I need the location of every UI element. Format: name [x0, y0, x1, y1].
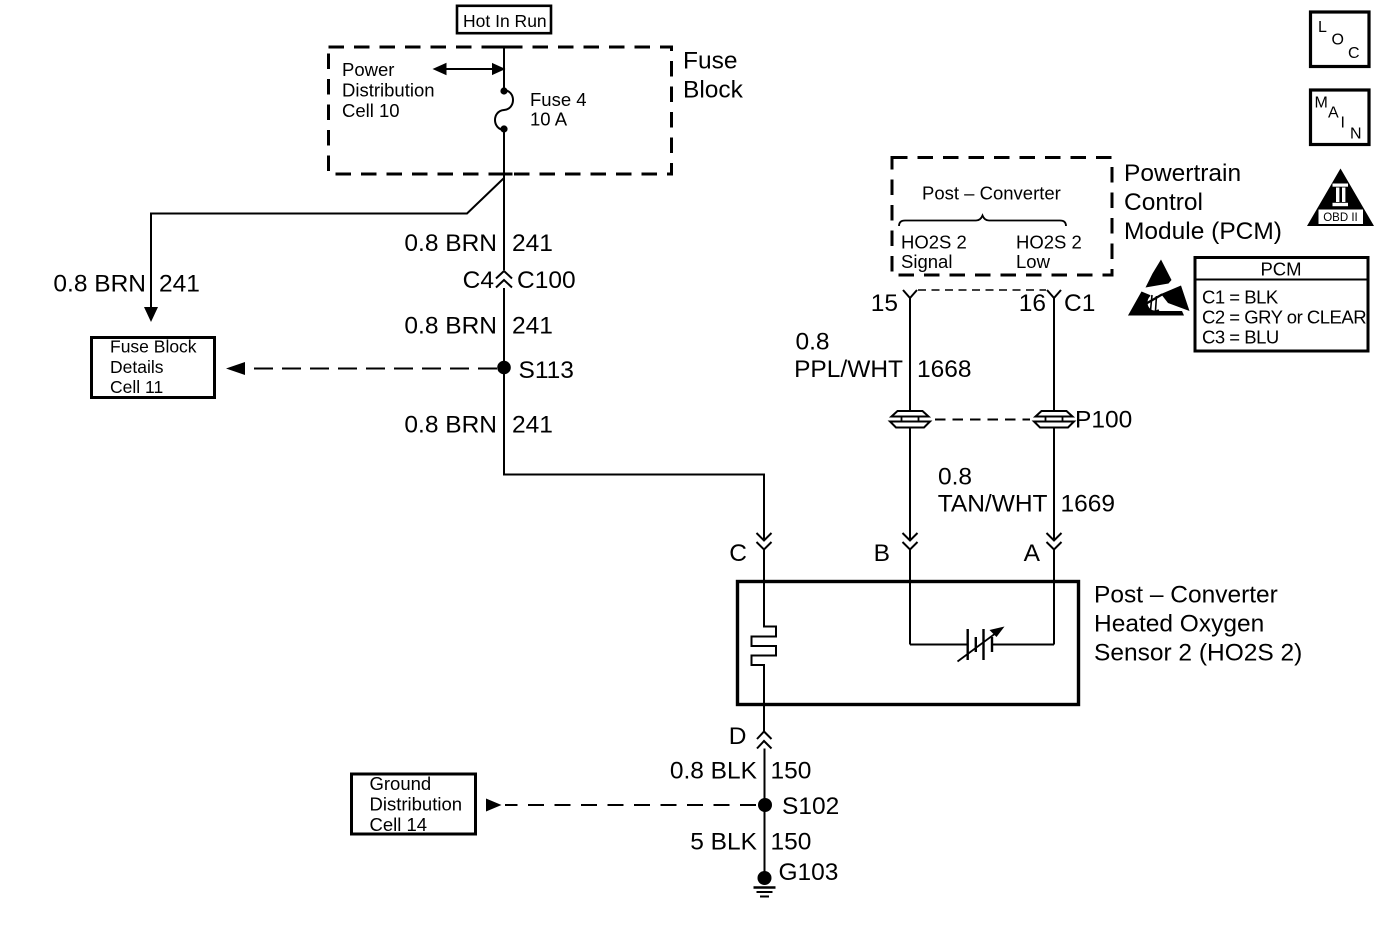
svg-text:Cell 10: Cell 10	[342, 100, 400, 121]
wire pin C into sensor	[763, 550, 765, 585]
svg-text:Cell 14: Cell 14	[370, 814, 428, 835]
svg-text:P100: P100	[1075, 407, 1132, 434]
brace	[899, 216, 1066, 227]
pin C chevrons	[729, 533, 771, 567]
svg-text:Ground: Ground	[370, 773, 432, 794]
splice S102	[758, 793, 839, 820]
wire label 0.8 BRN 241 (left branch)	[53, 271, 199, 298]
P100 pass-through connector (left half)	[890, 411, 930, 428]
svg-text:PCM: PCM	[1260, 259, 1301, 280]
svg-text:150: 150	[771, 758, 812, 785]
wire label 0.8 BRN 241 (below C100)	[404, 313, 552, 340]
svg-text:G103: G103	[779, 859, 839, 886]
wire C100 to corner to pin C	[504, 288, 764, 541]
svg-text:Post – Converter: Post – Converter	[1094, 582, 1278, 609]
svg-text:Distribution: Distribution	[370, 794, 463, 815]
svg-text:A: A	[1328, 105, 1339, 122]
svg-text:Block: Block	[683, 77, 744, 104]
svg-text:241: 241	[159, 271, 200, 298]
wire label 0.8 BRN 241 (below S113)	[404, 412, 552, 439]
fuse block dashed box	[329, 47, 672, 174]
dashed connector face line between pins	[918, 289, 1046, 291]
svg-text:0.8 BLK: 0.8 BLK	[670, 758, 758, 785]
connector C4 C100 symbol	[463, 267, 576, 294]
svg-text:Heated Oxygen: Heated Oxygen	[1094, 611, 1264, 638]
wire pin D to S102	[764, 749, 766, 806]
svg-text:Fuse 4: Fuse 4	[530, 89, 587, 110]
svg-text:0.8 BRN: 0.8 BRN	[53, 271, 146, 298]
LOC icon box	[1311, 12, 1370, 67]
variable sense element (B to A)	[910, 584, 1054, 662]
Ground Distribution Cell 14 box	[352, 773, 476, 835]
svg-text:TAN/WHT: TAN/WHT	[938, 491, 1048, 518]
wire label 5 BLK 150	[690, 829, 811, 856]
svg-text:C: C	[729, 540, 747, 567]
svg-text:D: D	[729, 723, 747, 750]
svg-text:Module (PCM): Module (PCM)	[1124, 218, 1282, 245]
Post-Converter Heated Oxygen Sensor 2 label	[1094, 582, 1302, 667]
PCM connector legend box	[1195, 258, 1368, 352]
heater element symbol	[752, 584, 777, 732]
wire P100 to pin A	[1053, 428, 1055, 541]
arrowhead down into Fuse Block Details	[144, 307, 158, 322]
Fuse 4 10 A value label	[530, 89, 587, 130]
svg-text:S113: S113	[519, 357, 574, 384]
Fuse Block Details Cell 11 box	[92, 337, 215, 398]
svg-text:Signal: Signal	[901, 251, 952, 272]
svg-text:Post – Converter: Post – Converter	[922, 183, 1061, 204]
svg-text:B: B	[874, 540, 890, 567]
pin D chevrons	[729, 723, 772, 750]
svg-text:C100: C100	[517, 267, 576, 294]
svg-text:241: 241	[512, 412, 553, 439]
dashed reference line Ground Distribution to S102	[486, 799, 756, 812]
svg-text:15: 15	[871, 290, 898, 317]
svg-text:C4: C4	[463, 267, 494, 294]
ESD sensitive icon	[1128, 260, 1190, 316]
svg-text:O: O	[1332, 32, 1344, 49]
svg-text:16: 16	[1019, 290, 1046, 317]
wire pin B into sensor	[909, 550, 911, 585]
svg-text:Details: Details	[110, 357, 164, 377]
svg-text:Power: Power	[342, 59, 394, 80]
MAIN icon box	[1311, 90, 1370, 145]
svg-text:S102: S102	[782, 793, 839, 820]
HO2S 2 Low label	[1016, 232, 1082, 273]
svg-text:0.8 BRN: 0.8 BRN	[404, 412, 497, 439]
branch wire to Fuse Block Details	[151, 178, 504, 308]
svg-text:L: L	[1318, 19, 1327, 36]
wire S102 to G103	[764, 805, 766, 874]
Hot In Run box	[457, 6, 551, 33]
OBD II icon triangle	[1307, 169, 1374, 227]
wire label 0.8 BRN 241 (above C100)	[404, 230, 552, 257]
wire pin16 to P100	[1053, 298, 1055, 411]
svg-text:C2 = GRY or CLEAR: C2 = GRY or CLEAR	[1202, 307, 1366, 328]
dashed reference line S113 to Fuse Block Details	[226, 362, 497, 375]
svg-text:Sensor 2 (HO2S 2): Sensor 2 (HO2S 2)	[1094, 640, 1302, 667]
svg-text:PPL/WHT: PPL/WHT	[794, 356, 903, 383]
wire pin15 to P100	[909, 298, 911, 411]
Fuse Block label	[683, 48, 744, 104]
HO2S 2 Signal label	[901, 232, 967, 273]
svg-text:OBD II: OBD II	[1323, 212, 1358, 224]
svg-text:Hot In Run: Hot In Run	[463, 11, 547, 31]
wire P100 to pin B	[909, 428, 911, 541]
svg-text:Fuse Block: Fuse Block	[110, 337, 197, 357]
Post-Converter PCM dashed box	[892, 158, 1112, 276]
PCM pin 15	[871, 290, 917, 317]
svg-text:M: M	[1315, 95, 1328, 112]
svg-text:Cell 11: Cell 11	[110, 377, 163, 397]
svg-text:Powertrain: Powertrain	[1124, 160, 1241, 187]
svg-text:0.8 BRN: 0.8 BRN	[404, 230, 497, 257]
ground G103	[754, 859, 839, 897]
svg-text:1669: 1669	[1061, 491, 1116, 518]
svg-text:A: A	[1024, 540, 1041, 567]
svg-text:Distribution: Distribution	[342, 79, 435, 100]
svg-text:0.8: 0.8	[938, 464, 972, 491]
wire label 0.8 BLK 150	[670, 758, 812, 785]
svg-text:5 BLK: 5 BLK	[690, 829, 757, 856]
svg-text:Low: Low	[1016, 251, 1051, 272]
wire below fuse to C100	[503, 130, 505, 270]
pin A chevrons	[1024, 533, 1062, 567]
fuse F4 symbol	[495, 87, 513, 132]
wire label 0.8 TAN/WHT 1669	[938, 464, 1115, 518]
Powertrain Control Module (PCM) label	[1124, 160, 1282, 245]
svg-text:Control: Control	[1124, 189, 1203, 216]
svg-text:HO2S 2: HO2S 2	[1016, 232, 1082, 253]
svg-text:150: 150	[771, 829, 812, 856]
PCM pin 16 / connector C1	[1019, 290, 1096, 317]
wire from fuse box top to fuse	[503, 47, 505, 89]
svg-text:C: C	[1348, 45, 1360, 62]
svg-text:N: N	[1350, 126, 1362, 143]
svg-text:1668: 1668	[917, 356, 972, 383]
wire label 0.8 PPL/WHT 1668	[794, 329, 971, 384]
double-headed arrow to Power Distribution	[433, 63, 506, 76]
wire pin A into sensor	[1053, 550, 1055, 585]
svg-text:241: 241	[512, 230, 553, 257]
svg-text:C1: C1	[1064, 290, 1095, 317]
svg-text:C3 = BLU: C3 = BLU	[1202, 327, 1279, 348]
Power Distribution Cell 10 label	[342, 59, 435, 121]
dashed line between P100 halves	[935, 419, 1030, 421]
svg-text:0.8: 0.8	[796, 329, 830, 356]
splice S113	[497, 357, 574, 384]
P100 pass-through connector (right half)	[1034, 407, 1132, 434]
svg-text:HO2S 2: HO2S 2	[901, 232, 967, 253]
svg-text:241: 241	[512, 313, 553, 340]
svg-text:10 A: 10 A	[530, 109, 568, 130]
svg-text:Fuse: Fuse	[683, 48, 737, 75]
svg-text:0.8 BRN: 0.8 BRN	[404, 313, 497, 340]
svg-text:I: I	[1341, 115, 1345, 132]
HO2S 2 sensor box	[738, 582, 1079, 705]
svg-text:C1 = BLK: C1 = BLK	[1202, 287, 1279, 308]
pin B chevrons	[874, 533, 918, 567]
